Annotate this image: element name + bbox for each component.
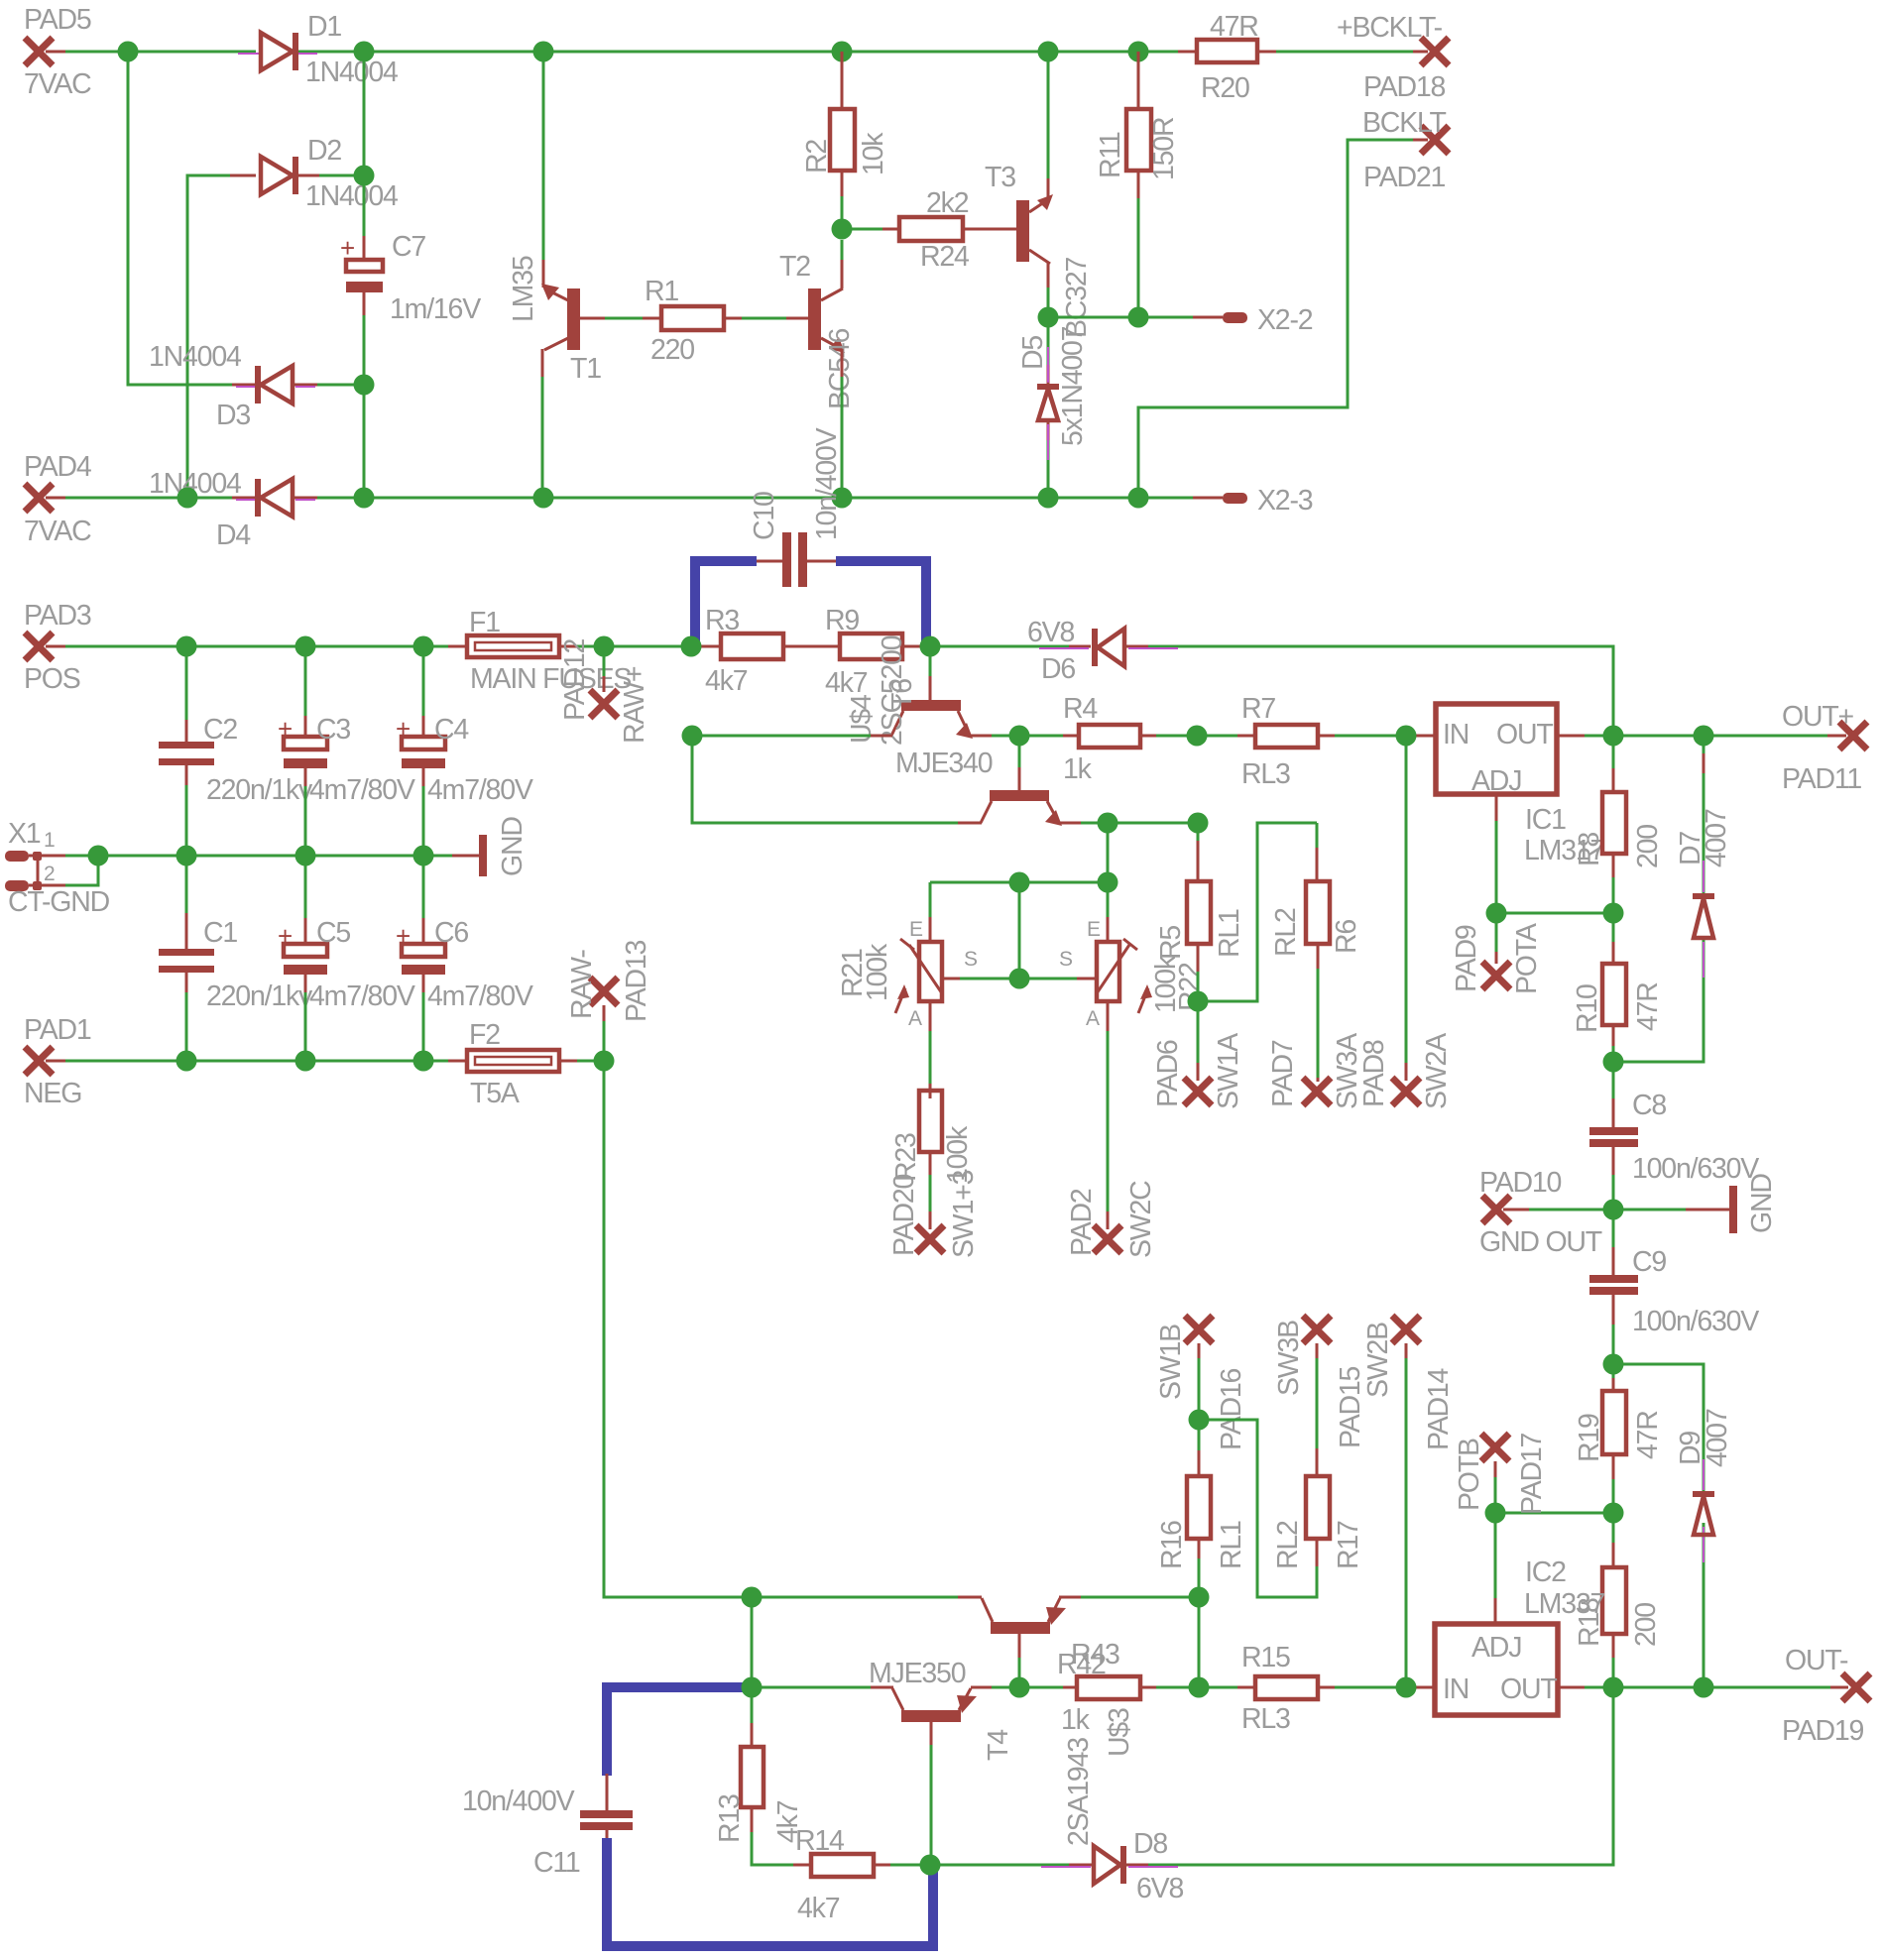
node junction NEG x308 (295, 1051, 316, 1072)
svg-text:BC546: BC546 (824, 329, 856, 409)
svg-text:5x1N4007: 5x1N4007 (1057, 326, 1089, 446)
diode D5 5x1N4007 (1017, 326, 1089, 460)
pad PAD6 SW1A (1152, 1001, 1244, 1109)
wire R15 to IC2 IN (1318, 1686, 1436, 1689)
svg-text:RL2: RL2 (1270, 908, 1302, 957)
node junction top rail x1148 (1128, 42, 1149, 62)
diode D7 4007 (1675, 809, 1732, 978)
svg-text:R10: R10 (1572, 984, 1603, 1033)
svg-text:T4: T4 (983, 1729, 1014, 1761)
svg-text:C8: C8 (1632, 1090, 1666, 1121)
transistor T4 MJE350 (869, 1658, 1014, 1865)
svg-text:S: S (964, 948, 978, 971)
svg-text:PAD8: PAD8 (1358, 1040, 1390, 1107)
svg-text:D5: D5 (1017, 336, 1049, 370)
svg-text:6V8: 6V8 (1027, 617, 1074, 648)
svg-text:1k: 1k (1063, 753, 1093, 785)
svg-text:T1: T1 (570, 353, 601, 385)
svg-text:R7: R7 (1241, 693, 1275, 725)
resistor R42 1k (1057, 1649, 1140, 1736)
node junction x1207 y742 (1187, 726, 1208, 747)
wire U$4 collector line (692, 735, 892, 738)
svg-text:PAD21: PAD21 (1363, 162, 1446, 193)
svg-text:IN: IN (1443, 719, 1469, 750)
wire T1 base to R1 (605, 317, 661, 320)
svg-text:PAD11: PAD11 (1782, 763, 1861, 795)
wire T2 emitter column (841, 349, 844, 498)
svg-text:BCKLT: BCKLT (1362, 107, 1447, 139)
wire lower line T4 collector (752, 1686, 893, 1689)
wire T1 emitter column (542, 52, 545, 288)
diode D9 4007 (1675, 1409, 1733, 1562)
resistor R1 220 (645, 276, 724, 366)
svg-text:IN: IN (1443, 1673, 1469, 1705)
svg-text:PAD3: PAD3 (24, 600, 91, 632)
svg-text:T2: T2 (779, 251, 810, 283)
node junction top rail x129 (118, 42, 139, 62)
trimmer R22 100k (1059, 918, 1206, 1030)
svg-text:ADJ: ADJ (1471, 1632, 1521, 1664)
pad PAD18 +BCKLT- (1337, 12, 1449, 103)
node junction NEG x609 (594, 1051, 615, 1072)
node junction R2-R24 (832, 219, 853, 240)
diode D2 1N4004 (261, 135, 399, 212)
svg-text:X2-2: X2-2 (1257, 304, 1313, 336)
transistor T6 MJE340 (981, 736, 1062, 826)
svg-text:+: + (396, 921, 411, 951)
svg-text:PAD6: PAD6 (1152, 1040, 1184, 1107)
svg-text:RAW+: RAW+ (619, 666, 650, 744)
svg-text:C3: C3 (316, 714, 350, 746)
resistor R23 100k (890, 1091, 974, 1184)
svg-text:C9: C9 (1632, 1246, 1666, 1278)
svg-text:47R: 47R (1632, 1411, 1664, 1459)
svg-text:C11: C11 (533, 1847, 580, 1879)
wire vertical x758 (751, 1597, 754, 1687)
wire T3 emitter column (1047, 52, 1050, 199)
svg-text:1N4004: 1N4004 (305, 180, 399, 212)
diode D4 1N4004 (149, 468, 315, 551)
svg-text:D4: D4 (216, 519, 251, 551)
resistor R13 4k7 (714, 1687, 811, 1865)
svg-text:IC1: IC1 (1525, 804, 1566, 836)
capacitor C9 100n/630V (1589, 1210, 1759, 1364)
wire IC1 ADJ column (1495, 794, 1498, 913)
svg-text:LM337: LM337 (1524, 1588, 1604, 1620)
svg-text:150R: 150R (1148, 117, 1180, 180)
svg-text:PAD17: PAD17 (1516, 1433, 1548, 1515)
svg-text:R16: R16 (1156, 1521, 1188, 1569)
node junction R14-D8-blue (920, 1855, 941, 1876)
wire SW2A column (1405, 736, 1408, 1081)
node junction y1611 x758 (742, 1587, 763, 1608)
svg-text:GND OUT: GND OUT (1479, 1226, 1602, 1258)
ground GND (452, 817, 529, 876)
svg-text:200: 200 (1630, 1603, 1662, 1647)
svg-text:R1: R1 (645, 276, 678, 307)
resistor R5 RL1 (1155, 823, 1245, 1001)
wire D9 column (1613, 1364, 1704, 1687)
svg-text:E: E (1087, 918, 1101, 941)
svg-text:D3: D3 (216, 400, 250, 431)
svg-text:RL1: RL1 (1214, 909, 1245, 958)
pad PAD4 (24, 451, 92, 547)
node junction GND x427 (413, 846, 434, 866)
node junction bottom rail x1148 (1128, 488, 1149, 509)
svg-text:4k7: 4k7 (797, 1893, 840, 1924)
wire GND rail (98, 855, 452, 858)
capacitor C10 10n/400V (749, 427, 843, 587)
svg-text:A: A (908, 1007, 922, 1030)
svg-text:D6: D6 (1041, 653, 1075, 685)
pad PAD10 GND OUT (1479, 1167, 1613, 1258)
svg-text:RL1: RL1 (1216, 1521, 1247, 1569)
svg-text:PAD1: PAD1 (24, 1014, 91, 1046)
capacitor C2 220n/1kv (159, 646, 313, 856)
transistor U$4 2SC5200 T6 (846, 635, 993, 779)
svg-text:SW2C: SW2C (1125, 1181, 1157, 1258)
wire S line (942, 882, 1097, 979)
svg-text:T5A: T5A (470, 1078, 520, 1109)
svg-text:PAD5: PAD5 (24, 4, 91, 36)
svg-text:R8: R8 (1574, 833, 1605, 866)
pad PAD15 SW3B (1273, 1316, 1366, 1450)
resistor R20 47R (1197, 11, 1258, 104)
fuse F1 MAIN FUSES (467, 607, 631, 695)
resistor R9 4k7 (825, 605, 902, 699)
node junction GND OUT (1603, 1200, 1624, 1220)
wire IC1 OUT line (1557, 735, 1846, 738)
transistor T2 BC546 (779, 251, 856, 409)
wire D3 branch (128, 52, 364, 385)
node junction bottom rail x849 (832, 488, 853, 509)
capacitor C11 10n/400V (462, 1774, 633, 1879)
svg-text:200: 200 (1632, 825, 1664, 868)
node junction bottom rail x367 (354, 488, 375, 509)
svg-text:+: + (340, 233, 355, 263)
svg-text:POTA: POTA (1511, 923, 1543, 994)
wire RAW- long vertical to lower section (604, 1061, 752, 1597)
svg-text:S: S (1059, 948, 1073, 971)
svg-text:PAD7: PAD7 (1267, 1040, 1299, 1107)
wire C7 column (363, 52, 366, 498)
svg-text:OUT+: OUT+ (1782, 701, 1854, 733)
resistor R10 47R (1572, 913, 1664, 1062)
wire blue thick C10 right (836, 561, 926, 642)
svg-text:R19: R19 (1574, 1414, 1605, 1462)
node junction y1611 x1209 (1189, 1587, 1210, 1608)
pad PAD9 POTA (1451, 913, 1543, 994)
wire blue thick left vertical upper (602, 1682, 612, 1776)
wire R42 to R15 (1140, 1686, 1255, 1689)
wire R1 to T2 base (724, 317, 808, 320)
pad PAD16 SW1B (1155, 1316, 1247, 1450)
wire RAW+ rail R3 R9 (604, 645, 930, 648)
node junction top rail x367 (354, 42, 375, 62)
svg-text:POS: POS (24, 663, 80, 695)
resistor R15 RL3 (1241, 1642, 1318, 1735)
svg-text:4m7/80V: 4m7/80V (427, 980, 533, 1012)
capacitor C6 4m7/80V (396, 856, 533, 1061)
svg-text:6V8: 6V8 (1136, 1873, 1183, 1904)
pad PAD13 RAW- (566, 940, 652, 1061)
svg-text:1N4004: 1N4004 (149, 341, 242, 373)
svg-text:220: 220 (650, 334, 694, 366)
wire R22 A to SW2C (1107, 1001, 1110, 1229)
pin X2-3 (1223, 485, 1313, 517)
wire NEG rail (46, 1060, 604, 1063)
svg-text:100n/630V: 100n/630V (1632, 1306, 1759, 1337)
svg-text:C10: C10 (749, 492, 780, 540)
svg-text:NEG: NEG (24, 1078, 81, 1109)
node junction y1702 x758 (742, 1677, 763, 1698)
node junction R19 bottom (1603, 1503, 1624, 1524)
resistor R6 RL2 (1270, 881, 1362, 1082)
wire trimmer E line (930, 823, 1108, 942)
svg-text:47R: 47R (1210, 11, 1258, 43)
svg-text:PAD20: PAD20 (888, 1174, 920, 1256)
svg-text:PAD19: PAD19 (1782, 1715, 1864, 1747)
svg-text:BC327: BC327 (1061, 258, 1093, 338)
svg-text:PAD4: PAD4 (24, 451, 92, 483)
resistor R16 RL1 (1156, 1420, 1247, 1597)
wire POS rail (46, 645, 691, 648)
svg-text:R3: R3 (705, 605, 739, 636)
svg-text:X1: X1 (8, 818, 41, 850)
pad PAD20 SW1+3 (888, 1152, 980, 1258)
svg-text:4007: 4007 (1701, 809, 1732, 867)
wire RL1 bottom to RL2 top (1198, 823, 1317, 1001)
svg-text:R23: R23 (890, 1133, 922, 1182)
svg-text:1N4004: 1N4004 (305, 57, 399, 88)
svg-text:7VAC: 7VAC (24, 516, 91, 547)
svg-text:C5: C5 (316, 917, 350, 949)
svg-text:4m7/80V: 4m7/80V (427, 774, 533, 806)
svg-text:GND: GND (497, 817, 529, 876)
node junction ADJ x1509 (1486, 903, 1507, 924)
node junction ADJ x1627 (1603, 903, 1624, 924)
svg-text:F2: F2 (469, 1019, 500, 1051)
node junction E line x1028 (1009, 872, 1030, 893)
transistor T3 BC327 (985, 162, 1093, 338)
wire R9 to D6 to IC1 corner (930, 646, 1613, 736)
pad PAD5 (24, 4, 91, 100)
svg-text:RL2: RL2 (1272, 1521, 1304, 1569)
node junction NEG x427 (413, 1051, 434, 1072)
pad PAD2 SW2C (1066, 1181, 1157, 1258)
svg-text:2SA1943: 2SA1943 (1063, 1738, 1095, 1846)
svg-text:1m/16V: 1m/16V (390, 293, 481, 325)
pad PAD17 POTB (1454, 1433, 1548, 1515)
svg-text:10n/400V: 10n/400V (811, 427, 843, 540)
pad PAD7 SW3A (1267, 1033, 1363, 1109)
node junction D5 top (1038, 307, 1059, 328)
svg-text:ADJ: ADJ (1471, 765, 1521, 797)
wire ADJ to R8/R10 node (1496, 912, 1613, 915)
svg-text:1: 1 (44, 829, 55, 852)
svg-text:R15: R15 (1241, 1642, 1290, 1673)
pad PAD14 SW2B (1362, 1316, 1455, 1687)
wire T6 collector line (692, 736, 982, 823)
svg-text:MAIN FUSES: MAIN FUSES (470, 663, 631, 695)
svg-text:100k: 100k (862, 943, 893, 1001)
wire T4 emitter to R42 (971, 1686, 1077, 1689)
op-amp regulator IC2 LM337 (1435, 1556, 1604, 1715)
capacitor C3 4m7/80V (278, 646, 415, 856)
svg-text:R14: R14 (795, 1825, 845, 1857)
svg-text:4k7: 4k7 (825, 667, 868, 699)
resistor R19 47R (1574, 1364, 1664, 1513)
svg-text:PAD2: PAD2 (1066, 1189, 1098, 1256)
wire R4 to R7 (1140, 735, 1255, 738)
svg-text:R17: R17 (1333, 1521, 1364, 1569)
svg-text:+BCKLT-: +BCKLT- (1337, 12, 1443, 44)
svg-text:SW2A: SW2A (1421, 1033, 1453, 1109)
svg-text:2: 2 (44, 863, 55, 885)
wire upper line y1611 (752, 1596, 1199, 1599)
node junction SW2B bottom (1396, 1677, 1417, 1698)
svg-text:C1: C1 (203, 917, 237, 949)
svg-text:IC2: IC2 (1525, 1556, 1566, 1588)
svg-text:PAD9: PAD9 (1451, 925, 1482, 992)
wire IC2 OUT line (1557, 1686, 1848, 1689)
pad PAD8 SW2A (1358, 1033, 1453, 1109)
svg-text:R2: R2 (801, 140, 833, 173)
pad PAD21 BCKLT (1362, 107, 1449, 193)
node junction x698 y742 (682, 726, 703, 747)
svg-text:F1: F1 (469, 607, 500, 638)
svg-text:R5: R5 (1155, 926, 1187, 960)
svg-text:100n/630V: 100n/630V (1632, 1153, 1759, 1185)
wire blue thick lower horizontal (607, 1682, 748, 1692)
node junction POS x427 (413, 636, 434, 657)
pad PAD11 OUT+ (1782, 701, 1867, 795)
svg-text:T6: T6 (886, 679, 918, 710)
svg-text:OUT: OUT (1496, 719, 1553, 750)
svg-text:PAD14: PAD14 (1423, 1367, 1455, 1450)
wire U$4 base (929, 646, 932, 700)
node junction D2-C7 x367 y177 (354, 166, 375, 186)
svg-text:T3: T3 (985, 162, 1015, 193)
node junction blue-left R3 (681, 636, 702, 657)
node junction E line x1117 (1098, 872, 1118, 893)
svg-text:RL3: RL3 (1241, 1703, 1290, 1735)
diode D1 1N4004 (238, 11, 399, 88)
svg-text:U$3: U$3 (1104, 1708, 1135, 1757)
resistor R2 10k (801, 52, 889, 229)
resistor R11 150R (1095, 52, 1180, 317)
capacitor C8 100n/630V (1589, 1062, 1759, 1210)
svg-text:C6: C6 (434, 917, 468, 949)
svg-text:+: + (396, 714, 411, 744)
svg-text:220n/1kv: 220n/1kv (206, 774, 313, 806)
wire POTB line (1495, 1512, 1613, 1515)
wire U$4 emitter to R4 (970, 735, 1079, 738)
pad PAD3 POS (24, 600, 91, 695)
svg-text:SW1B: SW1B (1155, 1325, 1187, 1400)
svg-text:+: + (278, 714, 293, 744)
wire T3 collector to X2-2 line (1047, 262, 1050, 317)
diode D8 6V8 (1041, 1828, 1183, 1904)
node junction bottom rail x1057 (1038, 488, 1059, 509)
wire D5 column (1047, 317, 1050, 498)
node junction blue-right R9 (920, 636, 941, 657)
node junction POS x188 (176, 636, 197, 657)
capacitor C5 4m7/80V (278, 856, 415, 1061)
svg-text:PAD16: PAD16 (1216, 1368, 1247, 1450)
svg-text:R42: R42 (1057, 1649, 1106, 1680)
svg-text:47R: 47R (1632, 982, 1664, 1031)
transistor T1 LM35 (508, 256, 607, 385)
wire blue thick bottom loop (607, 1838, 933, 1946)
ground GND output (1613, 1174, 1778, 1233)
svg-text:MJE340: MJE340 (895, 748, 993, 779)
svg-text:10n/400V: 10n/400V (462, 1786, 575, 1817)
node junction RL1 bottom (1188, 991, 1209, 1012)
capacitor C4 4m7/80V (396, 646, 533, 856)
svg-text:RL3: RL3 (1241, 758, 1290, 790)
svg-text:OUT-: OUT- (1785, 1645, 1848, 1676)
svg-text:POTB: POTB (1454, 1439, 1485, 1511)
svg-text:4m7/80V: 4m7/80V (309, 980, 415, 1012)
svg-text:R6: R6 (1331, 920, 1362, 954)
pad PAD1 NEG (24, 1014, 91, 1109)
node junction GND x188 (176, 846, 197, 866)
capacitor C1 220n/1kv (159, 856, 313, 1061)
svg-text:MJE350: MJE350 (869, 1658, 966, 1689)
resistor R24 2k2 (899, 187, 970, 273)
node junction x1208 y830 (1188, 813, 1209, 834)
node junction S line (1009, 969, 1030, 989)
wire R24 line (852, 228, 1016, 231)
node junction D3-C7 x367 y388 (354, 375, 375, 396)
svg-text:R9: R9 (825, 605, 859, 636)
resistor R7 RL3 (1241, 693, 1318, 790)
node junction OUT x1627 (1603, 726, 1624, 747)
wire X2-2 line (1048, 316, 1223, 319)
svg-text:PAD12: PAD12 (559, 638, 591, 721)
node junction SW1B (1189, 1410, 1210, 1431)
pad PAD19 OUT- (1782, 1645, 1870, 1747)
svg-text:R11: R11 (1095, 132, 1126, 178)
svg-text:7VAC: 7VAC (24, 68, 91, 100)
svg-text:PAD10: PAD10 (1479, 1167, 1562, 1199)
resistor R18 200 (1574, 1513, 1662, 1687)
node junction top rail x548 (533, 42, 554, 62)
wire x1209 to lower line (1198, 1597, 1201, 1687)
svg-text:D1: D1 (307, 11, 341, 43)
wire bottom rail 7VAC PAD4 (46, 497, 1223, 500)
node junction C9 bottom (1603, 1354, 1624, 1375)
node junction X1 (88, 846, 109, 866)
wire R21 A to R23 (929, 1001, 932, 1098)
wire X1 to GND rail (65, 856, 98, 885)
node junction POS x609 (594, 636, 615, 657)
svg-text:4k7: 4k7 (705, 665, 748, 697)
wire top rail 7VAC (46, 51, 1428, 54)
svg-text:+: + (278, 921, 293, 951)
svg-text:C7: C7 (392, 231, 425, 263)
svg-text:SW3B: SW3B (1273, 1321, 1305, 1396)
svg-text:A: A (1086, 1007, 1100, 1030)
svg-text:E: E (909, 918, 923, 941)
resistor R17 RL2 (1272, 1448, 1364, 1569)
wire R7 to IC1 IN (1318, 735, 1436, 738)
svg-text:SW1A: SW1A (1213, 1033, 1244, 1109)
node junction OUT- x1718 (1694, 1677, 1714, 1698)
fuse F2 T5A (467, 1019, 559, 1109)
svg-text:SW1+3: SW1+3 (948, 1170, 980, 1258)
